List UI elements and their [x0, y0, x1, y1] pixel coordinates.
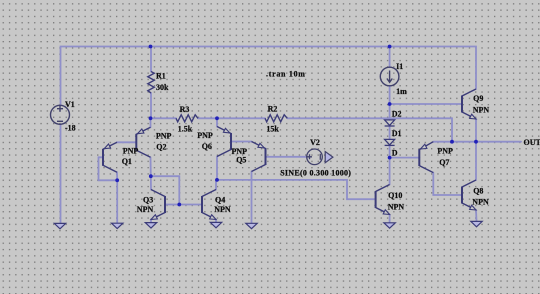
wire R1 top lead	[150, 47, 152, 72]
node dot Q9 emitter out rail	[474, 140, 478, 144]
svg-text:Q10: Q10	[388, 191, 402, 200]
voltage source V1	[51, 105, 70, 124]
current source I1	[380, 67, 399, 86]
svg-text:NPN: NPN	[388, 203, 405, 212]
wire top rail	[61, 47, 477, 106]
wire node D to Q10 collector	[389, 158, 391, 185]
transistor Q1	[103, 142, 117, 172]
svg-text:Q4: Q4	[215, 195, 225, 204]
transistor Q2	[136, 127, 150, 157]
wire Q2 emitter pin	[150, 118, 152, 127]
svg-text:OUT: OUT	[524, 138, 540, 147]
wire Q6 collector pin down	[216, 157, 218, 180]
wire diode chain top lead	[389, 104, 391, 120]
svg-text:PNP: PNP	[197, 131, 213, 140]
ground Q8	[471, 221, 482, 226]
svg-text:30k: 30k	[156, 83, 169, 92]
ground Q10	[384, 223, 395, 228]
svg-text:SINE(0 0.300 1000): SINE(0 0.300 1000)	[280, 168, 351, 177]
svg-text:D: D	[392, 148, 398, 157]
svg-text:15k: 15k	[266, 125, 279, 134]
wire mid rail R3 to R2	[198, 117, 265, 119]
wire I1 top lead	[389, 47, 391, 68]
wire Q2 collector pin	[150, 157, 152, 176]
wire Q2 collector node to Q3 collector	[150, 176, 152, 189]
transistor Q4	[202, 190, 216, 220]
wire Q5 collector to ground	[251, 172, 253, 224]
resistor R1	[148, 72, 154, 94]
wire Q1 emitter to Q2 base	[117, 141, 136, 143]
node dot Q4 Q6 collectors	[215, 178, 219, 182]
svg-text:Q2: Q2	[156, 143, 166, 152]
transistor Q7	[419, 142, 433, 173]
transistor Q10	[376, 185, 390, 215]
wire node D to Q7 base	[390, 157, 420, 159]
wire Q1 node to ground	[116, 180, 118, 223]
voltage source V2	[307, 149, 323, 165]
svg-text:V1: V1	[65, 100, 75, 109]
svg-text:PNP: PNP	[156, 132, 172, 141]
svg-text:PNP: PNP	[123, 146, 139, 155]
svg-text:Q6: Q6	[202, 142, 212, 151]
wire output rail	[433, 141, 521, 143]
wire Q3 emitter to ground	[150, 220, 152, 223]
node dot R1 top	[149, 45, 153, 49]
wire Q5 base to V2	[266, 156, 307, 158]
wire second stage node to Q10 base	[217, 180, 376, 199]
svg-text:PNP: PNP	[437, 147, 453, 156]
wire Q6 base to Q5 emitter	[231, 141, 252, 143]
transistor Q3	[151, 190, 165, 220]
svg-text:NPN: NPN	[473, 106, 490, 115]
diode D1	[385, 139, 395, 145]
wire Q4 base pin	[179, 204, 202, 206]
transistor Q6	[217, 127, 231, 157]
wire Q1 base loop	[99, 157, 118, 180]
wire Q8 collector pin	[475, 142, 477, 180]
wire Q7 collector to Q8 base	[433, 173, 462, 195]
wire Q4 emitter to ground	[215, 220, 217, 223]
svg-text:Q5: Q5	[236, 155, 246, 164]
ground Q5	[246, 223, 257, 228]
svg-text:NPN: NPN	[472, 197, 489, 206]
node dot Q6 emitter rail	[215, 116, 219, 120]
node dot Q1 base collector	[115, 178, 119, 182]
svg-text:NPN: NPN	[214, 205, 231, 214]
wire Q1 collector pin	[116, 172, 118, 180]
svg-text:R3: R3	[180, 105, 190, 114]
wire I1 bottom lead	[389, 86, 391, 104]
wire mid rail left (Q2 emitter node to R3)	[151, 117, 177, 119]
svg-text:Q3: Q3	[143, 195, 153, 204]
node dot I1 top	[388, 45, 392, 49]
svg-text:NPN: NPN	[137, 205, 154, 214]
svg-text:R1: R1	[156, 72, 166, 81]
wire node to Q9 base	[390, 103, 462, 105]
wire Q10 emitter to ground	[389, 215, 391, 223]
resistor R3	[176, 115, 198, 122]
wire between D2 and D1	[389, 126, 391, 139]
svg-text:Q1: Q1	[122, 157, 132, 166]
node dot Q3 Q4 bases	[177, 203, 181, 207]
wire Q3 base pin	[165, 204, 179, 206]
V2 output arrow flag	[325, 152, 333, 163]
svg-text:R2: R2	[268, 104, 278, 113]
node dot R1 bottom Q2 emitter	[149, 116, 153, 120]
wire Q4 collector pin up	[216, 180, 217, 190]
node D junction	[388, 156, 392, 160]
wire D1 to node D	[389, 145, 391, 157]
wire Q8 emitter to ground	[475, 210, 478, 221]
svg-text:-18: -18	[65, 123, 76, 132]
ground Q4	[210, 222, 221, 227]
transistor Q8	[462, 180, 476, 210]
svg-text:Q9: Q9	[473, 94, 483, 103]
svg-text:1.5k: 1.5k	[178, 125, 193, 134]
svg-text:Q7: Q7	[439, 158, 449, 167]
svg-text:.tran 10m: .tran 10m	[266, 69, 306, 78]
wire mid rail R2 to feedback corner	[287, 118, 452, 141]
ground Q3	[145, 223, 156, 228]
transistor Q9	[462, 89, 476, 119]
diode D2	[385, 120, 395, 126]
node dot feedback on out rail	[450, 140, 454, 144]
node dot I1 bottom Q9 base	[388, 102, 392, 106]
svg-text:I1: I1	[396, 62, 403, 71]
svg-text:D1: D1	[392, 129, 402, 138]
wire Q9 emitter pin	[475, 119, 477, 142]
ground V1	[54, 223, 65, 228]
node dot Q2 collector mirror	[149, 174, 153, 178]
wire mirror node to Q3 Q4 bases	[151, 176, 180, 204]
svg-text:Q8: Q8	[473, 187, 483, 196]
wire V1 bottom to ground	[60, 124, 62, 223]
wire Q6 emitter pin	[216, 118, 218, 126]
ground Q1 mirror node	[112, 223, 123, 228]
transistor Q5	[252, 142, 266, 172]
svg-text:1m: 1m	[396, 87, 407, 96]
resistor R2	[265, 115, 287, 122]
svg-text:V2: V2	[310, 138, 320, 147]
wire R1 bottom lead	[150, 93, 152, 118]
svg-text:D2: D2	[392, 110, 402, 119]
